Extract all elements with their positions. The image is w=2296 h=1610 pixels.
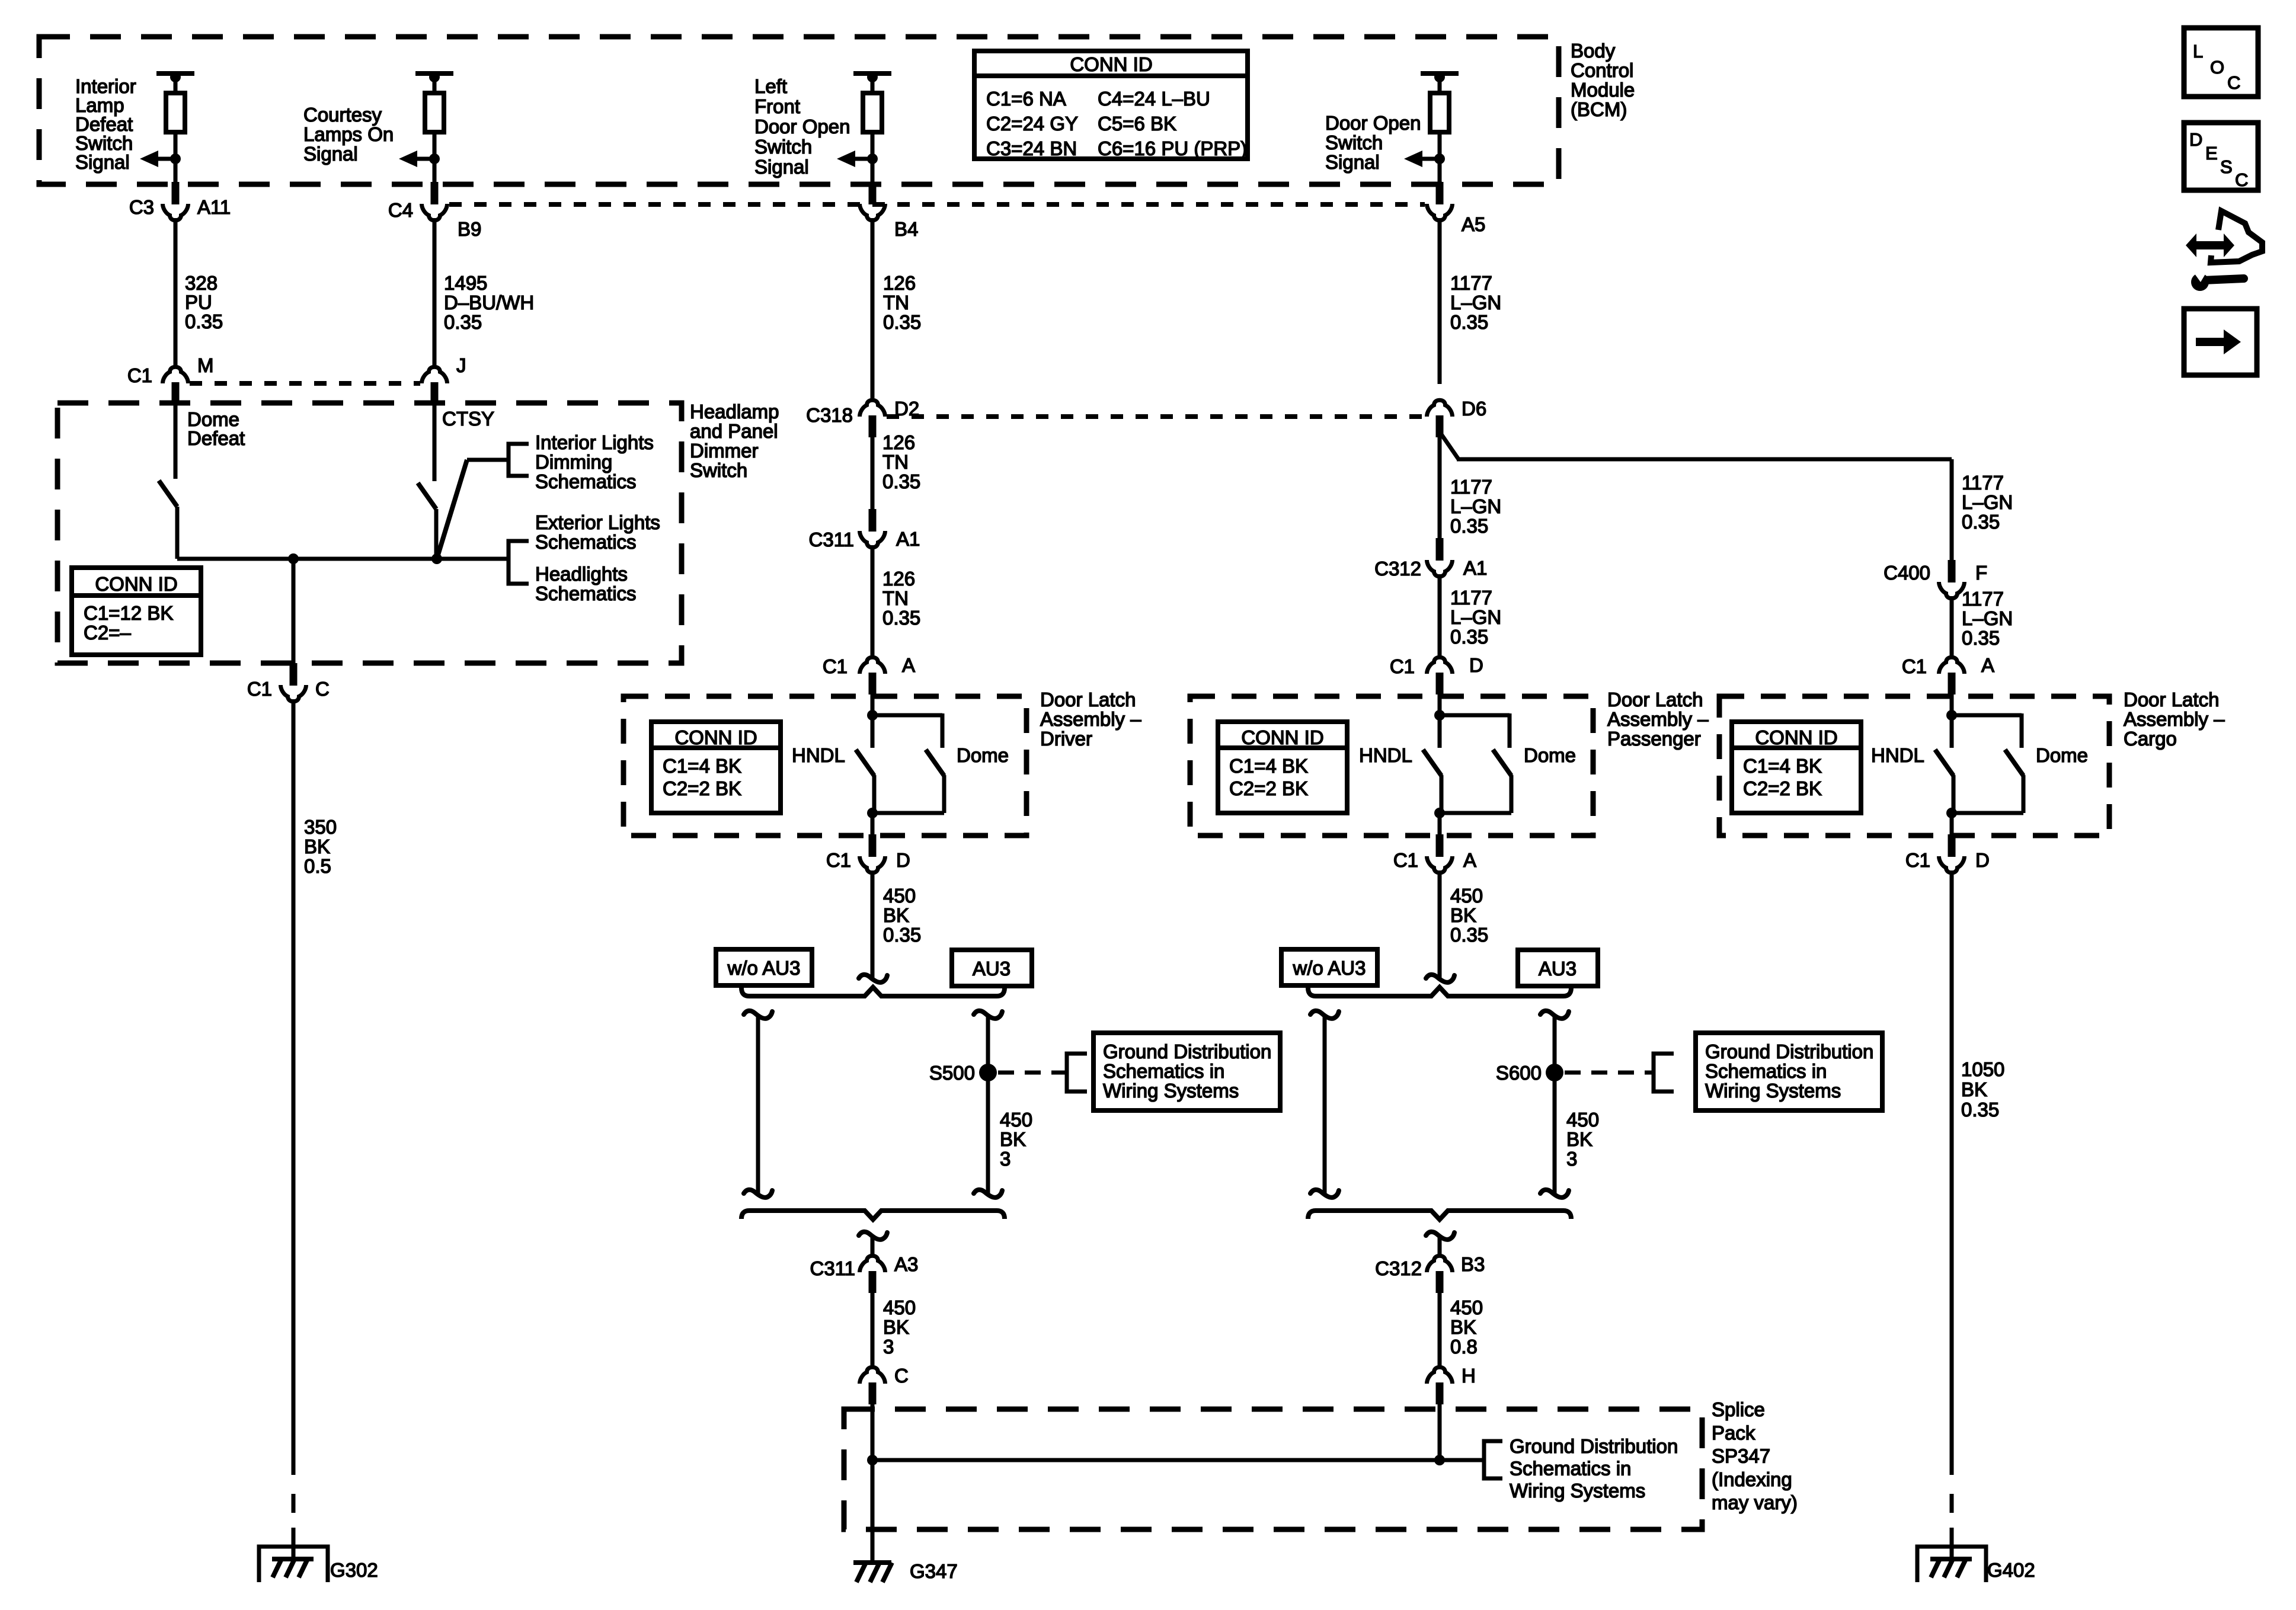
svg-text:S600: S600 bbox=[1496, 1062, 1542, 1084]
svg-text:CONN ID: CONN ID bbox=[1070, 53, 1152, 75]
svg-text:CONN ID: CONN ID bbox=[674, 726, 757, 748]
connector pin B4 (BCM) bbox=[869, 182, 877, 204]
svg-text:Schematics in: Schematics in bbox=[1510, 1458, 1631, 1480]
wire Dome pivot to bottom node cargo bbox=[2022, 775, 2026, 813]
wire Dome Defeat pivot to bus bbox=[175, 507, 180, 559]
wire break below brace passenger bbox=[1426, 1232, 1454, 1240]
svg-text:Control: Control bbox=[1571, 59, 1633, 81]
resistor BCM internal pull-up, Interior Lamp Defeat input bbox=[156, 71, 194, 76]
wire break below brace driver bbox=[859, 1232, 887, 1240]
svg-text:AU3: AU3 bbox=[1539, 958, 1576, 980]
wire break AU3 branch top driver bbox=[974, 1011, 1002, 1019]
svg-text:A1: A1 bbox=[1463, 557, 1487, 579]
svg-text:SP347: SP347 bbox=[1712, 1445, 1770, 1467]
svg-text:Signal: Signal bbox=[75, 151, 130, 173]
wire splice pack to G347 bbox=[871, 1460, 875, 1563]
svg-text:C1=12 BK: C1=12 BK bbox=[84, 602, 173, 624]
wire bottom node to C1-A passenger bbox=[1438, 813, 1442, 836]
resistor BCM internal pull-up, Left Front Door Open input bbox=[853, 71, 891, 76]
svg-text:B4: B4 bbox=[894, 218, 918, 240]
wire HNDL pivot to bottom node passenger bbox=[1440, 775, 1444, 813]
svg-text:BK: BK bbox=[883, 904, 909, 926]
connector C1 pin A (passenger latch bottom) bbox=[1436, 834, 1444, 857]
svg-text:C4=24 L–BU: C4=24 L–BU bbox=[1098, 88, 1210, 110]
dotted connector line M to J bbox=[190, 381, 420, 386]
wire Dome branch top driver bbox=[872, 713, 942, 718]
wire CTSY riser to Interior Lights Dimming bbox=[437, 460, 467, 559]
svg-text:Module: Module bbox=[1571, 79, 1635, 101]
svg-text:L–GN: L–GN bbox=[1450, 495, 1501, 517]
connector C1 pin D (driver latch bottom) bbox=[869, 834, 877, 857]
svg-text:PU: PU bbox=[185, 292, 212, 313]
svg-text:(BCM): (BCM) bbox=[1571, 98, 1627, 120]
svg-text:C3=24 BN: C3=24 BN bbox=[986, 137, 1077, 159]
switch HNDL cargo (open blade) bbox=[1935, 750, 1953, 776]
svg-text:D: D bbox=[896, 849, 910, 871]
svg-text:C1=4 BK: C1=4 BK bbox=[1743, 755, 1822, 777]
svg-text:C4: C4 bbox=[388, 199, 413, 221]
wire 126 TN 0.35 from B4 to C318-D2 bbox=[871, 218, 875, 401]
svg-text:G347: G347 bbox=[910, 1560, 958, 1582]
node bottom junction driver latch bbox=[867, 808, 878, 818]
svg-text:TN: TN bbox=[883, 292, 909, 313]
svg-text:C2=2 BK: C2=2 BK bbox=[1743, 777, 1822, 799]
svg-text:(Indexing: (Indexing bbox=[1712, 1468, 1792, 1490]
wire latch input to HNDL/Dome node passenger bbox=[1438, 694, 1442, 748]
svg-text:Pack: Pack bbox=[1712, 1422, 1755, 1443]
switch Dome cargo (open blade) bbox=[2005, 750, 2023, 776]
svg-text:may vary): may vary) bbox=[1712, 1491, 1798, 1513]
svg-text:0.35: 0.35 bbox=[444, 311, 482, 333]
svg-text:Wiring Systems: Wiring Systems bbox=[1510, 1480, 1645, 1502]
svg-text:Driver: Driver bbox=[1040, 728, 1092, 750]
svg-text:C1: C1 bbox=[127, 364, 152, 386]
wire 450 BK 0.8 to splice pack H bbox=[1438, 1292, 1442, 1368]
table CONN ID of BCM connectors bbox=[974, 51, 1248, 159]
icon LOC box bbox=[2184, 28, 2258, 97]
svg-text:BK: BK bbox=[1566, 1128, 1593, 1150]
switch Dome passenger (open blade) bbox=[1493, 750, 1511, 776]
wire brace to C311-A3 bbox=[871, 1235, 875, 1256]
svg-text:C1=6 NA: C1=6 NA bbox=[986, 88, 1066, 110]
wire 450 BK 0.35 driver bbox=[871, 870, 875, 978]
svg-text:0.35: 0.35 bbox=[1962, 627, 2000, 649]
connector C1 pin D (cargo latch bottom) bbox=[1948, 834, 1956, 857]
svg-text:Ground Distribution: Ground Distribution bbox=[1510, 1435, 1678, 1457]
svg-text:Cargo: Cargo bbox=[2124, 728, 2177, 750]
connector C1 pin A (driver latch) bbox=[869, 673, 877, 694]
svg-text:126: 126 bbox=[883, 272, 916, 294]
switch HNDL passenger (open blade) bbox=[1423, 750, 1441, 776]
splice pack box SP347, dashed outline bbox=[844, 1409, 1702, 1529]
svg-text:Door Open: Door Open bbox=[754, 116, 850, 137]
svg-text:BK: BK bbox=[1000, 1128, 1026, 1150]
switch Dome Defeat (open blade) bbox=[159, 481, 177, 507]
svg-text:CONN ID: CONN ID bbox=[95, 573, 177, 595]
component box Door Latch Assembly - Passenger, dashed outline bbox=[1190, 696, 1593, 836]
wire 450 BK 3 to splice pack C bbox=[871, 1292, 875, 1368]
svg-text:0.35: 0.35 bbox=[185, 311, 223, 332]
svg-text:C: C bbox=[894, 1365, 909, 1387]
wire pin C into splice pack bbox=[871, 1404, 875, 1460]
wire BCM A11 to connector stub bbox=[174, 159, 178, 184]
svg-text:C1: C1 bbox=[1393, 849, 1418, 871]
svg-text:450: 450 bbox=[1000, 1109, 1032, 1131]
dashed reference link S500 bbox=[998, 1071, 1067, 1075]
svg-text:w/o AU3: w/o AU3 bbox=[727, 957, 801, 979]
svg-text:J: J bbox=[456, 354, 466, 376]
svg-text:A: A bbox=[1463, 849, 1476, 871]
svg-text:HNDL: HNDL bbox=[792, 744, 845, 766]
connector pin C (splice pack) bbox=[869, 1382, 877, 1404]
wire BCM A5 to connector stub bbox=[1438, 159, 1442, 184]
svg-text:Interior Lights: Interior Lights bbox=[535, 431, 654, 453]
svg-text:450: 450 bbox=[883, 1297, 916, 1318]
icon DESC box bbox=[2184, 123, 2258, 190]
svg-text:0.35: 0.35 bbox=[1450, 924, 1488, 946]
wire internal bus of dimmer switch bbox=[177, 557, 509, 561]
svg-text:C6=16 PU (PRP): C6=16 PU (PRP) bbox=[1098, 137, 1247, 159]
svg-text:BK: BK bbox=[883, 1316, 909, 1338]
switch box Headlamp and Panel Dimmer Switch, dashed outline bbox=[57, 403, 682, 663]
wire AU3 branch driver bbox=[986, 1016, 990, 1193]
svg-text:CONN ID: CONN ID bbox=[1755, 726, 1837, 748]
svg-text:C311: C311 bbox=[810, 1257, 855, 1279]
svg-text:CTSY: CTSY bbox=[442, 408, 494, 430]
svg-text:C5=6 BK: C5=6 BK bbox=[1098, 113, 1176, 135]
svg-text:3: 3 bbox=[1000, 1148, 1011, 1170]
svg-text:Schematics in: Schematics in bbox=[1705, 1060, 1827, 1082]
wire break AU3 branch bottom passenger bbox=[1540, 1190, 1569, 1198]
icon adjustable component (double arrow, outline, wrench) bbox=[2186, 233, 2234, 257]
svg-text:126: 126 bbox=[882, 568, 915, 590]
resistor BCM internal pull-up, Door Open input bbox=[1421, 71, 1459, 76]
wire AU3 branch passenger bbox=[1553, 1016, 1557, 1193]
signal arrow Door Open Switch Signal bbox=[1434, 153, 1445, 164]
svg-text:Dome: Dome bbox=[1524, 744, 1576, 766]
wire 1050 BK 0.35 to G402 bbox=[1950, 870, 1954, 1475]
wire from pin M into Dome Defeat switch bbox=[174, 404, 178, 479]
wire BCM B4 to connector stub bbox=[871, 159, 875, 184]
node splice bus at C bbox=[867, 1455, 878, 1465]
connector C312 pin A1 bbox=[1436, 538, 1444, 561]
svg-text:Exterior Lights: Exterior Lights bbox=[535, 511, 660, 533]
svg-text:Door Open: Door Open bbox=[1325, 112, 1421, 134]
wire 1177 L-GN 0.35 from D6 to C312-A1 bbox=[1438, 437, 1442, 539]
svg-text:BK: BK bbox=[1961, 1078, 1987, 1100]
svg-text:Front: Front bbox=[754, 95, 800, 117]
svg-text:Dome: Dome bbox=[2036, 744, 2088, 766]
svg-text:CONN ID: CONN ID bbox=[1241, 726, 1323, 748]
svg-text:G302: G302 bbox=[330, 1559, 378, 1581]
wire w/o AU3 branch driver bbox=[756, 1016, 760, 1193]
wire Dome pivot to bottom node driver bbox=[942, 775, 946, 813]
bracket to Interior Lights Dimming Schematics bbox=[509, 444, 529, 476]
component box Door Latch Assembly - Cargo, dashed outline bbox=[1719, 696, 2109, 836]
svg-text:Body: Body bbox=[1571, 40, 1616, 62]
connector C311 pin A1 bbox=[869, 509, 877, 532]
node top junction passenger latch bbox=[1434, 710, 1445, 721]
svg-text:O: O bbox=[2210, 57, 2224, 78]
svg-text:Switch: Switch bbox=[754, 136, 812, 158]
svg-text:D–BU/WH: D–BU/WH bbox=[444, 292, 534, 313]
splice S600 bbox=[1546, 1064, 1563, 1081]
svg-text:1177: 1177 bbox=[1450, 476, 1492, 498]
connector C4 pin B9 (BCM) bbox=[431, 182, 439, 204]
svg-text:S: S bbox=[2220, 156, 2233, 177]
svg-text:C: C bbox=[2235, 169, 2248, 190]
svg-text:C1: C1 bbox=[247, 678, 272, 700]
svg-text:Assembly –: Assembly – bbox=[2124, 708, 2225, 730]
svg-text:Splice: Splice bbox=[1712, 1398, 1765, 1420]
svg-text:Dimmer: Dimmer bbox=[690, 440, 758, 462]
node bottom junction passenger latch bbox=[1434, 808, 1445, 818]
wire 126 TN 0.35 from C311-A1 to latch C1-A bbox=[871, 545, 875, 659]
svg-text:0.35: 0.35 bbox=[1450, 626, 1488, 648]
svg-text:B9: B9 bbox=[458, 218, 481, 240]
brace bottom driver options bbox=[741, 1211, 1005, 1219]
wire bottom node to C1-D cargo bbox=[1950, 813, 1954, 836]
svg-text:Ground Distribution: Ground Distribution bbox=[1103, 1041, 1271, 1062]
svg-text:126: 126 bbox=[882, 431, 915, 453]
svg-text:Assembly –: Assembly – bbox=[1040, 708, 1141, 730]
svg-text:B3: B3 bbox=[1461, 1253, 1485, 1275]
svg-text:350: 350 bbox=[304, 816, 337, 838]
svg-text:0.35: 0.35 bbox=[1961, 1099, 1999, 1121]
wire latch input to HNDL/Dome node bbox=[871, 694, 875, 748]
svg-text:C2=24 GY: C2=24 GY bbox=[986, 113, 1078, 135]
svg-text:TN: TN bbox=[882, 451, 909, 473]
node splice bus at H bbox=[1434, 1455, 1445, 1465]
svg-text:Door Latch: Door Latch bbox=[2124, 689, 2219, 710]
svg-text:BK: BK bbox=[304, 836, 330, 857]
svg-text:1177: 1177 bbox=[1450, 587, 1492, 609]
svg-text:328: 328 bbox=[185, 272, 218, 294]
svg-text:and Panel: and Panel bbox=[690, 420, 778, 442]
icon forward arrow box bbox=[2184, 309, 2257, 375]
wire break AU3 branch bottom driver bbox=[974, 1190, 1002, 1198]
wire brace to C312-B3 bbox=[1438, 1235, 1442, 1256]
signal arrow Interior Lamp Defeat Switch Signal bbox=[170, 153, 181, 164]
svg-text:Schematics in: Schematics in bbox=[1103, 1060, 1224, 1082]
svg-text:Courtesy: Courtesy bbox=[303, 104, 382, 126]
signal arrow Left Front Door Open Switch Signal bbox=[867, 153, 878, 164]
svg-text:Ground Distribution: Ground Distribution bbox=[1705, 1041, 1873, 1062]
ground G302 bbox=[259, 1547, 328, 1582]
svg-text:0.35: 0.35 bbox=[1450, 515, 1488, 537]
brace bottom passenger options bbox=[1308, 1211, 1571, 1219]
wire break before AU3 brace passenger bbox=[1426, 975, 1454, 982]
svg-text:L–GN: L–GN bbox=[1450, 292, 1501, 313]
svg-text:A: A bbox=[902, 654, 915, 676]
switch Dome driver (open blade) bbox=[926, 750, 944, 776]
wire Dome branch top passenger bbox=[1440, 713, 1510, 718]
option box AU3 driver bbox=[952, 950, 1032, 986]
svg-text:Headlights: Headlights bbox=[535, 563, 628, 585]
bracket to Ground Distribution (S600) bbox=[1654, 1054, 1674, 1092]
wire 328 PU 0.35 from C3-A11 to C1-M bbox=[174, 218, 178, 367]
svg-text:Switch: Switch bbox=[1325, 132, 1383, 153]
wire break w/o AU3 branch bottom driver bbox=[744, 1190, 772, 1198]
wire BCM B9 to connector stub bbox=[433, 159, 437, 184]
svg-text:A1: A1 bbox=[896, 528, 920, 550]
svg-text:Signal: Signal bbox=[1325, 151, 1380, 173]
wire break dash to G302 bbox=[292, 1494, 296, 1513]
svg-text:H: H bbox=[1462, 1365, 1476, 1387]
svg-text:C312: C312 bbox=[1374, 558, 1421, 580]
option box AU3 passenger bbox=[1518, 950, 1598, 986]
component box Door Latch Assembly - Driver, dashed outline bbox=[623, 696, 1027, 836]
node bottom junction cargo latch bbox=[1946, 808, 1957, 818]
reference box Ground Distribution Schematics S600 bbox=[1696, 1033, 1882, 1110]
wire HNDL pivot to bottom node driver bbox=[872, 775, 877, 813]
wire cargo feed down to C400-F bbox=[1950, 459, 1954, 561]
svg-text:C1=4 BK: C1=4 BK bbox=[663, 755, 741, 777]
connector pin D6 bbox=[1436, 415, 1444, 437]
connector pin H (splice pack) bbox=[1436, 1382, 1444, 1404]
bracket to Exterior Lights / Headlights Schematics bbox=[509, 541, 529, 584]
svg-text:w/o AU3: w/o AU3 bbox=[1293, 957, 1366, 979]
module box Body Control Module (BCM), dashed outline bbox=[39, 37, 1559, 184]
svg-text:L: L bbox=[2193, 41, 2203, 62]
svg-text:D: D bbox=[1975, 849, 1990, 871]
svg-text:BK: BK bbox=[1450, 904, 1476, 926]
svg-text:Passenger: Passenger bbox=[1607, 728, 1701, 750]
option box w/o AU3 driver bbox=[716, 949, 812, 985]
dashed reference link S600 bbox=[1565, 1071, 1654, 1075]
svg-text:L–GN: L–GN bbox=[1962, 491, 2013, 513]
svg-text:C2=–: C2=– bbox=[84, 622, 131, 644]
svg-text:HNDL: HNDL bbox=[1871, 744, 1924, 766]
wire Dome branch top cargo bbox=[1952, 713, 2022, 718]
svg-text:1177: 1177 bbox=[1962, 588, 2004, 610]
svg-text:0.35: 0.35 bbox=[882, 607, 920, 629]
svg-text:TN: TN bbox=[882, 587, 909, 609]
svg-text:C1=4 BK: C1=4 BK bbox=[1229, 755, 1308, 777]
svg-text:1495: 1495 bbox=[444, 272, 487, 294]
wire break w/o AU3 branch bottom passenger bbox=[1310, 1190, 1339, 1198]
svg-text:A5: A5 bbox=[1462, 213, 1485, 235]
connector C400 pin F bbox=[1948, 560, 1956, 582]
svg-text:A3: A3 bbox=[894, 1253, 918, 1275]
svg-text:3: 3 bbox=[883, 1336, 894, 1358]
wire HNDL pivot to bottom node cargo bbox=[1952, 775, 1956, 813]
svg-text:C: C bbox=[315, 678, 330, 700]
table CONN ID of driver latch bbox=[651, 722, 781, 813]
wire break w/o AU3 branch top driver bbox=[744, 1011, 772, 1019]
connector C1 pin D (passenger latch) bbox=[1436, 673, 1444, 694]
svg-text:D: D bbox=[2189, 129, 2202, 150]
connector C312 pin B3 bbox=[1436, 1271, 1444, 1293]
svg-text:C3: C3 bbox=[129, 196, 154, 218]
wire pin H into splice pack bbox=[1438, 1404, 1442, 1460]
svg-text:0.35: 0.35 bbox=[882, 470, 920, 492]
svg-text:1177: 1177 bbox=[1962, 472, 2004, 494]
svg-text:E: E bbox=[2205, 143, 2218, 164]
dotted connector line D2 to D6 bbox=[887, 414, 1425, 419]
table CONN ID of passenger latch bbox=[1218, 722, 1347, 813]
node junction bus to C1-C drop bbox=[288, 553, 299, 564]
svg-text:0.35: 0.35 bbox=[1450, 311, 1488, 333]
svg-text:C1: C1 bbox=[1390, 655, 1415, 677]
splice S500 bbox=[979, 1064, 997, 1081]
brace top passenger options bbox=[1308, 987, 1571, 996]
svg-text:Dome: Dome bbox=[957, 744, 1009, 766]
svg-text:Assembly –: Assembly – bbox=[1607, 708, 1709, 730]
svg-text:Left: Left bbox=[754, 75, 787, 97]
node junction CTSY at bus bbox=[431, 553, 442, 564]
svg-text:L–GN: L–GN bbox=[1450, 606, 1501, 628]
table CONN ID of dimmer switch bbox=[72, 568, 201, 655]
wire latch input to HNDL/Dome node cargo bbox=[1950, 694, 1954, 748]
connector C318 pin D2 bbox=[869, 415, 877, 437]
svg-text:Signal: Signal bbox=[754, 156, 809, 178]
connector C311 pin A3 bbox=[869, 1271, 877, 1293]
svg-text:Schematics: Schematics bbox=[535, 470, 637, 492]
node top junction cargo latch bbox=[1946, 710, 1957, 721]
svg-text:450: 450 bbox=[1450, 1297, 1483, 1318]
wire from pin J into CTSY switch bbox=[433, 404, 437, 481]
wire break AU3 branch top passenger bbox=[1540, 1011, 1569, 1019]
signal arrow Courtesy Lamps On Signal bbox=[429, 153, 440, 164]
svg-text:A11: A11 bbox=[197, 196, 231, 218]
svg-text:1050: 1050 bbox=[1961, 1058, 2004, 1080]
svg-text:Signal: Signal bbox=[303, 143, 358, 165]
svg-text:450: 450 bbox=[1566, 1109, 1599, 1131]
bracket to Ground Distribution (S500) bbox=[1067, 1054, 1087, 1092]
brace top driver options bbox=[741, 987, 1005, 996]
svg-text:C1: C1 bbox=[826, 849, 851, 871]
wire dimmer bus drop to C1-C bbox=[292, 559, 296, 664]
svg-text:C400: C400 bbox=[1884, 562, 1930, 584]
svg-text:C1: C1 bbox=[823, 655, 848, 677]
wire 1495 D-BU/WH 0.35 from C4-B9 to C1-J bbox=[433, 218, 437, 367]
svg-text:Wiring Systems: Wiring Systems bbox=[1705, 1080, 1841, 1102]
svg-text:0.35: 0.35 bbox=[883, 924, 921, 946]
svg-text:450: 450 bbox=[1450, 885, 1483, 907]
connector C3 pin A11 (BCM) bbox=[172, 182, 180, 204]
connector C1 pin J (dimmer switch) bbox=[431, 382, 439, 404]
svg-text:M: M bbox=[197, 354, 214, 376]
svg-text:Defeat: Defeat bbox=[187, 427, 245, 449]
switch CTSY (open blade) bbox=[418, 483, 436, 509]
svg-text:AU3: AU3 bbox=[973, 958, 1011, 980]
wire 1177 L-GN 0.35 from C312-A1 to latch C1-D bbox=[1438, 574, 1442, 659]
wire Dome pivot to bottom node passenger bbox=[1510, 775, 1514, 813]
svg-text:C1: C1 bbox=[1905, 849, 1930, 871]
svg-text:0.35: 0.35 bbox=[1962, 511, 2000, 533]
svg-text:BK: BK bbox=[1450, 1316, 1476, 1338]
node top junction driver latch bbox=[867, 710, 878, 721]
wire 126 TN 0.35 from D2 to C311-A1 bbox=[871, 437, 875, 510]
ground G402 bbox=[1917, 1547, 1986, 1582]
wire splice bus bbox=[872, 1458, 1484, 1462]
wire break w/o AU3 branch top passenger bbox=[1310, 1011, 1339, 1019]
svg-text:HNDL: HNDL bbox=[1359, 744, 1412, 766]
svg-text:Switch: Switch bbox=[690, 459, 747, 481]
svg-text:C312: C312 bbox=[1375, 1257, 1422, 1279]
svg-text:C311: C311 bbox=[809, 529, 854, 550]
svg-text:C318: C318 bbox=[806, 404, 853, 426]
connector C1 pin A (cargo latch) bbox=[1948, 673, 1956, 694]
svg-text:Lamps On: Lamps On bbox=[303, 123, 394, 145]
connector C1 pin M (dimmer switch) bbox=[172, 382, 180, 404]
svg-text:Schematics: Schematics bbox=[535, 582, 637, 604]
svg-text:Schematics: Schematics bbox=[535, 531, 637, 553]
svg-text:0.5: 0.5 bbox=[304, 855, 331, 877]
option box w/o AU3 passenger bbox=[1281, 949, 1377, 985]
svg-text:Door Latch: Door Latch bbox=[1607, 689, 1703, 710]
